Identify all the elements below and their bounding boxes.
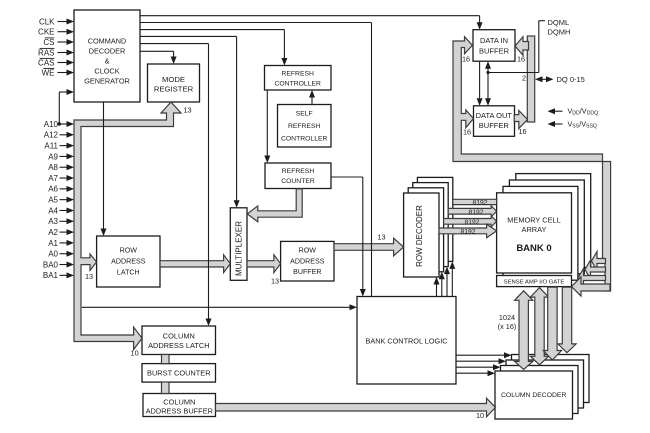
svg-text:COLUMN DECODER: COLUMN DECODER bbox=[501, 392, 566, 399]
svg-text:2: 2 bbox=[522, 74, 526, 83]
svg-text:MODE: MODE bbox=[162, 75, 185, 84]
svg-text:1024: 1024 bbox=[499, 313, 515, 322]
svg-text:A6: A6 bbox=[48, 185, 58, 194]
svg-text:WE: WE bbox=[42, 68, 55, 77]
svg-text:A11: A11 bbox=[44, 142, 58, 151]
svg-text:BANK 0: BANK 0 bbox=[516, 243, 551, 254]
svg-text:SELF: SELF bbox=[296, 110, 313, 117]
svg-text:REFRESH: REFRESH bbox=[281, 70, 314, 77]
svg-text:A0: A0 bbox=[48, 250, 58, 259]
svg-text:BURST COUNTER: BURST COUNTER bbox=[147, 369, 211, 378]
svg-text:COMMAND: COMMAND bbox=[88, 37, 127, 46]
svg-text:A4: A4 bbox=[48, 206, 58, 215]
svg-text:16: 16 bbox=[518, 127, 526, 136]
svg-text:ROW DECODER: ROW DECODER bbox=[415, 205, 424, 267]
svg-text:A3: A3 bbox=[48, 217, 58, 226]
svg-text:BA1: BA1 bbox=[43, 271, 59, 280]
svg-text:A7: A7 bbox=[48, 174, 58, 183]
svg-text:8192: 8192 bbox=[460, 229, 475, 236]
svg-text:GENERATOR: GENERATOR bbox=[84, 77, 130, 86]
svg-text:CLOCK: CLOCK bbox=[94, 67, 119, 76]
svg-text:CONTROLLER: CONTROLLER bbox=[274, 80, 321, 87]
svg-text:13: 13 bbox=[271, 276, 279, 285]
svg-text:REGISTER: REGISTER bbox=[154, 84, 194, 93]
svg-text:CLK: CLK bbox=[39, 17, 55, 26]
svg-text:REFRESH: REFRESH bbox=[282, 168, 315, 175]
svg-text:A1: A1 bbox=[48, 239, 58, 248]
svg-text:MEMORY CELL: MEMORY CELL bbox=[507, 215, 561, 224]
svg-text:10: 10 bbox=[131, 348, 139, 357]
svg-text:A2: A2 bbox=[48, 228, 58, 237]
svg-text:ADDRESS BUFFER: ADDRESS BUFFER bbox=[146, 407, 213, 416]
svg-text:&: & bbox=[105, 57, 110, 66]
svg-text:16: 16 bbox=[462, 55, 470, 64]
svg-text:BA0: BA0 bbox=[43, 260, 59, 269]
svg-text:A5: A5 bbox=[48, 196, 58, 205]
svg-text:ROW: ROW bbox=[299, 247, 317, 255]
svg-text:CS: CS bbox=[43, 38, 54, 47]
svg-text:DQML: DQML bbox=[548, 18, 570, 27]
svg-text:(x 16): (x 16) bbox=[498, 322, 517, 331]
svg-text:COUNTER: COUNTER bbox=[281, 178, 315, 185]
svg-text:CKE: CKE bbox=[38, 28, 54, 37]
svg-text:A10: A10 bbox=[44, 120, 59, 129]
svg-text:8192: 8192 bbox=[472, 200, 487, 207]
svg-text:13: 13 bbox=[377, 233, 385, 242]
svg-text:COLUMN: COLUMN bbox=[163, 397, 195, 406]
svg-text:ADDRESS: ADDRESS bbox=[111, 258, 146, 266]
svg-text:DATA OUT: DATA OUT bbox=[476, 111, 513, 120]
svg-text:ADDRESS: ADDRESS bbox=[290, 258, 325, 266]
svg-text:RAS: RAS bbox=[38, 48, 54, 57]
svg-text:SENSE AMP I/O GATE: SENSE AMP I/O GATE bbox=[504, 279, 565, 285]
svg-text:10: 10 bbox=[476, 411, 484, 420]
svg-text:8192: 8192 bbox=[464, 219, 479, 226]
svg-text:13: 13 bbox=[85, 272, 93, 281]
svg-text:BANK CONTROL LOGIC: BANK CONTROL LOGIC bbox=[365, 337, 447, 346]
svg-text:A8: A8 bbox=[48, 163, 58, 172]
svg-text:CONTROLLER: CONTROLLER bbox=[281, 135, 328, 142]
svg-text:16: 16 bbox=[463, 128, 471, 137]
svg-text:CAS: CAS bbox=[38, 58, 54, 67]
svg-text:ARRAY: ARRAY bbox=[522, 225, 547, 234]
svg-text:BUFFER: BUFFER bbox=[479, 121, 510, 130]
svg-text:REFRESH: REFRESH bbox=[288, 123, 321, 130]
svg-text:BUFFER: BUFFER bbox=[293, 268, 321, 276]
svg-text:A12: A12 bbox=[44, 131, 59, 140]
svg-text:8192: 8192 bbox=[468, 209, 483, 216]
svg-text:ADDRESS LATCH: ADDRESS LATCH bbox=[148, 341, 209, 350]
svg-text:DQMH: DQMH bbox=[548, 27, 571, 36]
svg-text:13: 13 bbox=[183, 106, 191, 115]
svg-text:BUFFER: BUFFER bbox=[479, 46, 510, 55]
svg-text:DQ 0-15: DQ 0-15 bbox=[557, 75, 585, 84]
svg-text:LATCH: LATCH bbox=[117, 269, 140, 277]
svg-text:ROW: ROW bbox=[120, 247, 138, 255]
svg-text:DECODER: DECODER bbox=[89, 47, 126, 56]
svg-text:DATA IN: DATA IN bbox=[480, 36, 508, 45]
svg-text:MULTIPLEXER: MULTIPLEXER bbox=[234, 221, 243, 276]
svg-text:A9: A9 bbox=[48, 152, 58, 161]
svg-text:COLUMN: COLUMN bbox=[163, 332, 195, 341]
svg-text:16: 16 bbox=[517, 54, 525, 63]
